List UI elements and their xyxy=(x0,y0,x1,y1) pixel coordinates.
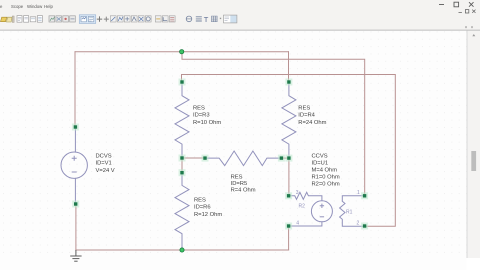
svg-text:Scope: Scope xyxy=(11,4,24,9)
svg-text:R=24 Ohm: R=24 Ohm xyxy=(298,120,326,126)
svg-text:R=10 Ohm: R=10 Ohm xyxy=(193,120,221,126)
svg-text:T: T xyxy=(204,15,209,24)
svg-text:R=4 Ohm: R=4 Ohm xyxy=(231,188,256,194)
svg-text:ID=R3: ID=R3 xyxy=(193,113,210,119)
svg-text:Help: Help xyxy=(44,4,53,9)
svg-text:R1: R1 xyxy=(346,210,353,216)
svg-text:RES: RES xyxy=(231,174,243,180)
svg-text:▾: ▾ xyxy=(471,25,473,30)
svg-text:▾: ▾ xyxy=(465,25,467,30)
svg-text:R=12 Ohm: R=12 Ohm xyxy=(194,212,222,218)
svg-text:DCVS: DCVS xyxy=(96,153,112,159)
svg-text:CCVS: CCVS xyxy=(312,153,328,159)
svg-text:ID=R5: ID=R5 xyxy=(231,181,248,187)
svg-text:Window: Window xyxy=(27,4,43,9)
svg-text:3: 3 xyxy=(296,190,299,196)
svg-text:ID=R4: ID=R4 xyxy=(298,113,315,119)
svg-text:4: 4 xyxy=(296,221,299,227)
svg-text:2: 2 xyxy=(357,221,360,227)
svg-text:ID=U1: ID=U1 xyxy=(312,160,329,166)
svg-text:R1=0 Ohm: R1=0 Ohm xyxy=(312,174,340,180)
svg-text:R2=0 Ohm: R2=0 Ohm xyxy=(312,181,340,187)
svg-text:ID=R6: ID=R6 xyxy=(194,205,211,211)
svg-text:V=24 V: V=24 V xyxy=(96,168,115,174)
svg-text:RES: RES xyxy=(298,105,310,111)
svg-text:R2: R2 xyxy=(299,204,306,210)
svg-text:1: 1 xyxy=(357,190,360,196)
svg-text:ID=V1: ID=V1 xyxy=(96,161,112,167)
svg-text:RES: RES xyxy=(194,197,206,203)
svg-text:RES: RES xyxy=(193,105,205,111)
svg-text:M=4 Ohm: M=4 Ohm xyxy=(312,167,338,173)
